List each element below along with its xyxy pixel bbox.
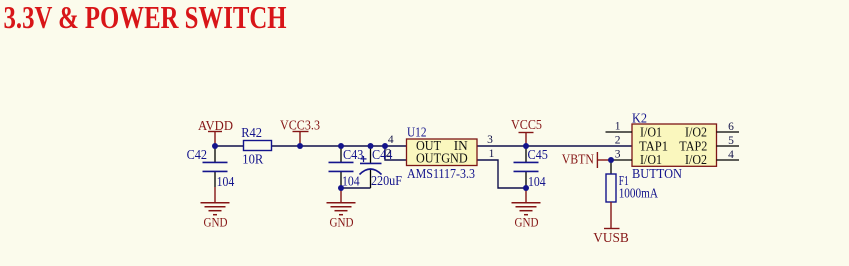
wire: down to ground	[340, 188, 342, 203]
wire: U12 pin1 GND route to C45 bottom	[477, 160, 526, 188]
svg-text:2: 2	[386, 148, 392, 160]
fuse F1	[610, 160, 612, 174]
svg-text:R42: R42	[241, 126, 262, 141]
svg-text:3: 3	[615, 149, 621, 161]
wire: C43/C44 bottom join	[341, 187, 371, 189]
capacitor C42	[214, 146, 216, 187]
power port AVDD	[208, 132, 222, 147]
junction dot (VCC3.3)	[297, 143, 303, 149]
svg-text:5: 5	[728, 135, 734, 147]
svg-text:104: 104	[528, 175, 546, 190]
svg-text:AVDD: AVDD	[198, 119, 233, 134]
svg-text:VBTN: VBTN	[562, 152, 594, 167]
svg-text:10R: 10R	[242, 152, 264, 167]
wire: main 3.3V rail from AVDD to U12	[215, 145, 406, 147]
junction dot (VBTN/F1/K2 pin3)	[608, 157, 614, 163]
wire: C45 bottom to ground	[525, 188, 527, 203]
svg-text:I/O1: I/O1	[640, 126, 662, 141]
wire: U12 pin2 branch	[385, 146, 406, 160]
regulator U12 AMS1117-3.3	[407, 139, 478, 166]
svg-text:I/O2: I/O2	[685, 153, 707, 168]
svg-text:GND: GND	[515, 215, 539, 230]
resistor R42	[244, 141, 272, 151]
svg-text:I/O1: I/O1	[640, 153, 662, 168]
svg-text:C43: C43	[343, 148, 363, 163]
junction dot (VCC5/C45)	[523, 143, 529, 149]
svg-text:2: 2	[615, 135, 621, 147]
svg-text:VCC3.3: VCC3.3	[280, 119, 320, 134]
svg-text:3: 3	[487, 134, 493, 146]
svg-text:AMS1117-3.3: AMS1117-3.3	[407, 167, 475, 182]
svg-text:1000mA: 1000mA	[619, 186, 659, 201]
junction dot (AVDD/C42)	[212, 143, 218, 149]
svg-text:GND: GND	[204, 215, 228, 230]
svg-text:C42: C42	[187, 148, 207, 163]
svg-text:1: 1	[489, 148, 495, 160]
capacitor C44 (electrolytic)	[370, 146, 372, 188]
ground (C45)	[512, 203, 541, 215]
svg-text:1: 1	[615, 121, 621, 133]
svg-text:104: 104	[217, 175, 235, 190]
svg-text:220uF: 220uF	[371, 174, 402, 189]
K2 left pin stubs	[606, 132, 633, 160]
svg-text:4: 4	[728, 149, 734, 161]
power port VCC3.3	[293, 132, 309, 147]
ground (C42)	[201, 203, 230, 215]
junction dot (C43)	[338, 143, 344, 149]
svg-text:GND: GND	[330, 215, 354, 230]
power port VUSB	[610, 202, 612, 229]
svg-text:VCC5: VCC5	[511, 118, 542, 133]
svg-text:C45: C45	[528, 148, 548, 163]
svg-text:104: 104	[342, 175, 360, 190]
pushbutton K2 BUTTON	[632, 124, 717, 166]
svg-text:3.3V & POWER SWITCH: 3.3V & POWER SWITCH	[4, 0, 287, 35]
ground (C43/C44)	[327, 203, 356, 215]
svg-text:I/O2: I/O2	[685, 126, 707, 141]
K2 right pin stubs	[717, 132, 740, 160]
plus mark of C44	[361, 156, 367, 162]
capacitor C45	[525, 146, 527, 188]
wire: U12 pin3 to K2 pin2 (VCC5 net)	[477, 145, 632, 147]
svg-text:4: 4	[388, 134, 394, 146]
svg-text:6: 6	[728, 121, 734, 133]
capacitor C43	[340, 146, 342, 188]
junction dot (C43/C44 bottom)	[338, 185, 344, 191]
svg-text:K2: K2	[632, 111, 647, 126]
svg-text:GND: GND	[441, 152, 468, 167]
junction dot (C45 bottom)	[523, 185, 529, 191]
junction dot (U12 pin2 branch)	[382, 143, 388, 149]
svg-text:VUSB: VUSB	[593, 231, 629, 246]
power port VCC5	[519, 133, 534, 147]
junction dot (C44)	[368, 143, 374, 149]
svg-text:BUTTON: BUTTON	[632, 167, 682, 182]
svg-text:OUT: OUT	[416, 152, 441, 167]
